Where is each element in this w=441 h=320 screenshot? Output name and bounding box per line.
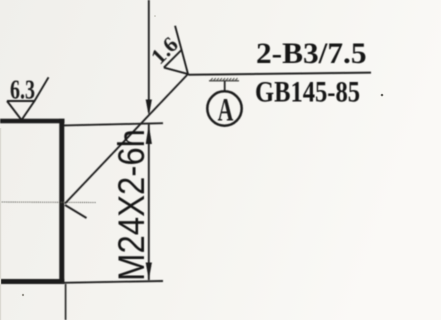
scan speck near right [381,94,384,97]
faint scan edge line at left [0,128,1,320]
datum stem [224,81,226,92]
part outline bottom edge (thick) [0,279,64,284]
datum circle [207,91,241,125]
roughness symbol 6.3 (triangle with tail) [7,77,49,120]
scan speck above extension line [154,15,156,17]
down arrow on upper vertical line [146,100,152,117]
leader diagonal line [65,74,189,204]
roughness symbol 1.6 (rotated triangle with tail) [146,24,206,84]
dimension up arrow [146,125,152,144]
leader horizontal line [189,73,372,75]
datum target bar (hatched) [209,78,239,81]
scan speck bottom left [22,294,24,296]
bottom extension line [62,281,164,283]
dimension down arrow [146,263,152,280]
top extension line [64,123,163,125]
dimension line M24X2-6h [148,125,150,281]
thread root line (thin faint dashed) [0,201,96,204]
part outline right edge (thick) [59,119,64,284]
paper background [0,0,1,1]
centerline below part [65,284,67,320]
upper vertical line [148,0,150,112]
part outline top edge (thick) [0,119,65,124]
leader barb segment [65,205,87,218]
